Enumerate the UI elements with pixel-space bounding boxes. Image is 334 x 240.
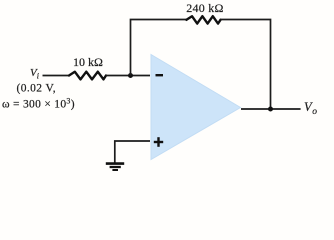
op-amp U1 (151, 55, 241, 160)
inverting input marker (-) (156, 74, 164, 76)
wire Vi to R1 (43, 75, 70, 77)
node: input junction dot (128, 73, 133, 78)
wire: feedback branch (up, across top left) (131, 20, 187, 76)
wire R1 to inverting input (106, 75, 150, 77)
svg-text:Vi: Vi (30, 67, 39, 80)
resistor R1 10 kΩ (69, 72, 106, 80)
non-inverting input marker (+) (154, 137, 163, 147)
svg-text:ω = 300 × 103): ω = 300 × 103) (2, 97, 75, 111)
wire: op-amp output to Vo (241, 108, 301, 110)
resistor R2 240 kΩ (187, 16, 221, 23)
svg-text:240 kΩ: 240 kΩ (186, 1, 223, 15)
svg-text:(0.02 V,: (0.02 V, (17, 82, 57, 94)
ground (106, 164, 124, 170)
svg-text:10 kΩ: 10 kΩ (73, 55, 103, 69)
svg-text:Vo: Vo (304, 100, 317, 117)
node: output junction dot (268, 107, 273, 112)
wire: feedback top run right + down to output node (221, 20, 271, 110)
wire: ground to non-inverting input (115, 141, 150, 163)
